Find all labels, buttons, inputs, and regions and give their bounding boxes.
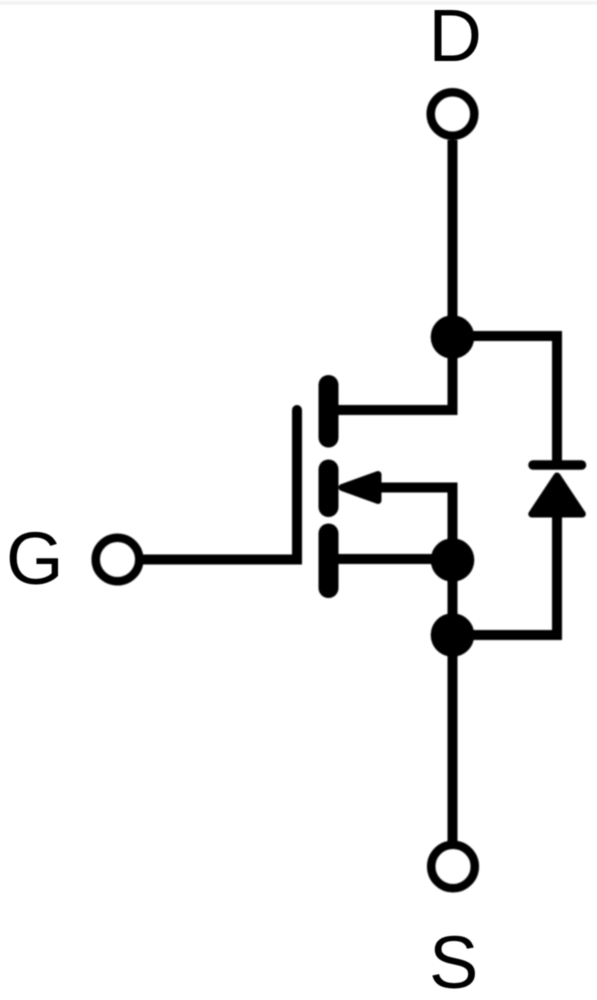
wire: source contact [338,554,453,564]
terminal circle D [431,92,475,136]
terminal circle S [431,845,475,889]
terminal label D [429,0,482,73]
terminal circle G [96,538,140,582]
junction node source [431,538,475,582]
body diode cathode bar [533,460,582,470]
terminal label G [6,522,64,596]
wire: drain terminal to node [448,140,458,340]
body diode triangle [532,476,583,514]
gate bar body segment [319,470,339,508]
wire: source node to source terminal [448,558,458,843]
gate bar source segment [319,534,339,589]
junction node diode anode [431,613,475,657]
body arrow [342,475,378,501]
wire: node to drain contact [338,335,453,410]
wire: diode branch bottom [453,500,558,635]
wire: body contact to source node [380,488,453,564]
wire: gate terminal to gate [144,410,298,560]
wire: top rail to diode branch [453,336,558,465]
junction node drain [431,315,475,359]
terminal label S [429,926,478,1000]
gate bar drain segment [319,385,339,438]
